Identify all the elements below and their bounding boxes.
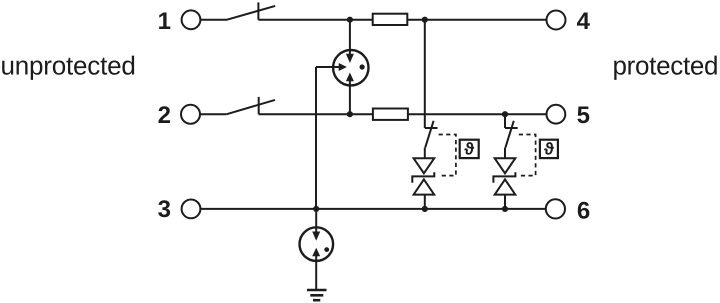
disconnect switch S2 blade <box>227 100 275 114</box>
gas tube F1 bottom arrowhead <box>346 73 354 82</box>
wire V2 to line3 <box>504 195 506 209</box>
junction line3/F2 <box>313 206 319 212</box>
gas tube F1 left arrowhead <box>339 63 347 71</box>
wire vertical branch1 from line1 down to thermal switch S3 <box>424 20 426 128</box>
junction line1/F1 <box>347 17 353 23</box>
wire from F1 left electrode down to line3 <box>315 67 317 209</box>
gas tube F2 top arrowhead <box>312 232 320 241</box>
gas discharge tube F2 (2-electrode) body <box>300 227 334 261</box>
wire S3 to suppressor diode V1 <box>424 148 426 159</box>
gas tube F2 bottom arrowhead <box>312 248 320 257</box>
suppressor diode V2 top triangle <box>495 158 516 173</box>
disconnect switch S1 blade <box>227 6 275 20</box>
svg-text:6: 6 <box>577 197 590 224</box>
thermal switch S4 contact tick bar <box>505 127 518 129</box>
wire line2 from R2 to terminal 5 <box>408 113 547 115</box>
gas tube F1 inner dot <box>360 64 365 69</box>
svg-text:ϑ: ϑ <box>544 139 554 158</box>
gas tube F1 top arrowhead <box>346 54 354 63</box>
svg-text:ϑ: ϑ <box>464 139 474 158</box>
thermal sensor box theta 1 <box>460 140 479 158</box>
wire from F2 to ground <box>315 255 317 289</box>
terminal 5 <box>547 105 566 124</box>
ground symbol bar 3 <box>313 299 320 302</box>
thermal switch S3 blade <box>425 121 433 148</box>
svg-text:unprotected: unprotected <box>1 50 136 80</box>
ground symbol bar 2 <box>310 294 323 297</box>
wire vertical line1 to gas tube F1 top electrode <box>349 20 351 56</box>
terminal 4 <box>547 11 566 30</box>
svg-text:1: 1 <box>158 8 171 35</box>
wire from line3 down to gas tube F2 <box>315 209 317 233</box>
suppressor diode V1 center bar <box>412 172 434 183</box>
terminal 3 <box>182 200 201 219</box>
thermal switch S3 contact tick bar <box>425 127 438 129</box>
thermal sensor box theta 2 <box>540 140 558 158</box>
wire line1 from S1 to resistor R1 <box>258 19 372 21</box>
suppressor diode V2 bottom triangle <box>495 179 516 194</box>
wire line1 from R1 to terminal 4 <box>407 19 546 21</box>
gas tube F1 left electrode wire <box>316 66 340 68</box>
svg-text:5: 5 <box>577 102 590 129</box>
suppressor diode V1 bottom triangle <box>414 179 435 194</box>
wire line1 from terminal 1 to switch S1 <box>200 19 227 21</box>
ground symbol bar 1 <box>307 289 327 292</box>
wire line2 from S2 to resistor R2 <box>259 113 373 115</box>
wire line2 from terminal 2 to switch S2 <box>200 113 227 115</box>
disconnect switch S2 contact tick <box>258 97 260 114</box>
resistor R1 <box>373 14 408 25</box>
thermal switch S4 blade <box>505 121 513 148</box>
svg-text:3: 3 <box>158 196 171 223</box>
junction line3/branch1 <box>422 206 428 212</box>
junction line1/branch1 <box>422 17 428 23</box>
wire line3 from terminal 3 to terminal 6 <box>200 208 545 210</box>
junction line2/branch2 <box>502 111 508 117</box>
wire V1 to line3 <box>424 195 426 209</box>
wire vertical branch2 from line2 down to thermal switch S4 <box>504 114 506 128</box>
terminal 1 <box>182 10 201 29</box>
wire S4 to suppressor diode V2 <box>504 148 506 159</box>
gas tube F2 inner dot <box>324 247 329 252</box>
suppressor diode V1 top triangle <box>414 158 435 173</box>
terminal 2 <box>181 105 200 124</box>
junction line3/branch2 <box>502 206 508 212</box>
terminal 6 <box>546 199 565 218</box>
svg-text:protected: protected <box>613 50 719 80</box>
svg-text:4: 4 <box>577 8 591 35</box>
disconnect switch S1 contact tick <box>257 2 259 19</box>
svg-text:2: 2 <box>158 102 171 129</box>
junction line2/F1 <box>347 111 353 117</box>
dashed linkage branch1 <box>439 135 456 176</box>
gas discharge tube F1 (3-electrode) body <box>333 50 368 85</box>
gas tube F1 bottom electrode wire to line2 <box>349 81 351 115</box>
dashed linkage branch2 <box>519 135 536 176</box>
resistor R2 <box>373 109 408 120</box>
suppressor diode V2 center bar <box>493 172 515 183</box>
